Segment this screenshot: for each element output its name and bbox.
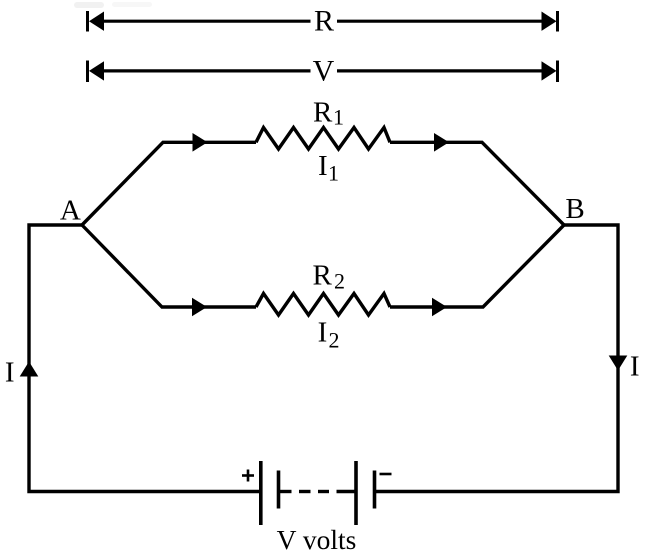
svg-text:R: R [313,260,333,292]
wire bottom branch left: A down-right diagonal and horizontal to resistor R2 [82,225,256,307]
dimension line V [88,61,558,83]
wire bottom branch right: resistor R2 to B [390,225,564,307]
svg-text:2: 2 [334,269,345,294]
svg-text:I: I [630,351,640,383]
current arrow I1 right [434,133,449,152]
battery + sign [242,470,254,482]
wire top branch left: A up-right diagonal and horizontal to resistor R1 [82,142,256,225]
current arrow I down (right side) [609,356,628,371]
current arrow I1 left [193,133,208,152]
svg-text:1: 1 [333,104,344,129]
battery cell 1 negative plate (short) [277,471,281,509]
resistor R2 [256,294,390,316]
wire right loop: battery - along bottom, up right side to B [375,225,619,492]
svg-text:1: 1 [328,160,339,185]
svg-text:I: I [318,317,328,349]
current arrow I2 right [432,298,447,317]
dimension line R [88,11,558,32]
svg-text:R: R [314,5,334,38]
current arrow I up (left side) [20,362,39,377]
svg-text:A: A [60,195,81,227]
svg-text:B: B [565,193,584,225]
resistor R1 [256,128,390,150]
battery cell 2 positive plate (tall) [354,461,358,525]
battery dashed link [279,490,357,493]
svg-text:V: V [313,55,335,88]
svg-text:R: R [313,96,333,128]
current arrow I2 left [192,298,207,317]
wire top branch right: resistor R1 to B [390,142,564,225]
svg-text:V volts: V volts [277,524,357,555]
svg-text:I: I [5,357,15,389]
svg-text:I: I [318,150,328,182]
battery cell 1 positive plate (tall) [259,461,263,525]
svg-text:2: 2 [329,328,340,353]
battery cell 2 negative plate (short) [373,471,377,509]
battery - sign [380,473,392,476]
wire left loop: A to left side, down, along bottom to battery + [29,225,262,492]
